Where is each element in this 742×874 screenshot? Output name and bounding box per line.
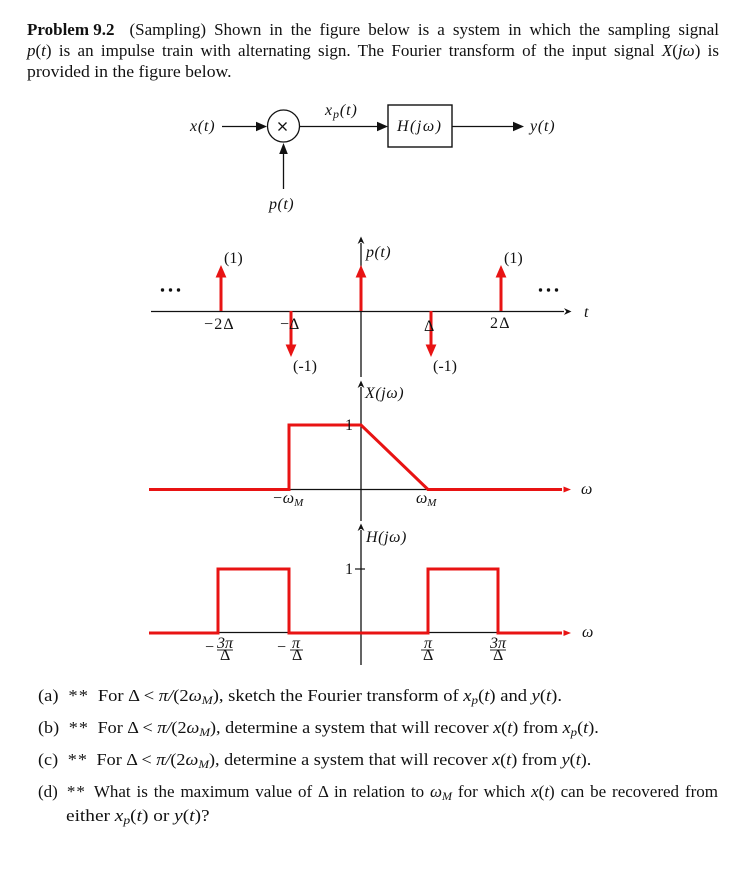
item (c)	[38, 749, 718, 770]
svg-text:−2Δ: −2Δ	[204, 316, 235, 333]
ellipsis right	[539, 288, 558, 291]
multiplier node	[268, 110, 300, 142]
svg-text:H(jω): H(jω)	[396, 118, 442, 135]
svg-text:1: 1	[345, 417, 353, 434]
svg-text:−: −	[277, 639, 286, 656]
svg-text:(-1): (-1)	[293, 358, 317, 375]
tick label -pi/D	[277, 635, 303, 664]
problem statement paragraph	[27, 19, 719, 82]
svg-text:(-1): (-1)	[433, 358, 457, 375]
svg-text:ωM: ωM	[416, 490, 437, 509]
svg-text:−ωM: −ωM	[272, 490, 304, 509]
svg-text:Δ: Δ	[220, 647, 230, 664]
impulse down at D	[426, 311, 437, 357]
svg-text:X(jω): X(jω)	[364, 385, 404, 402]
svg-text:Δ: Δ	[292, 647, 302, 664]
impulse up at 0	[356, 265, 367, 311]
svg-text:x(t): x(t)	[189, 118, 215, 135]
svg-text:−: −	[205, 639, 214, 656]
impulse up at 2D	[496, 265, 507, 311]
H(jw) filter curve	[149, 569, 562, 633]
tick label pi/D	[421, 635, 434, 664]
item (d) line 2	[66, 805, 742, 826]
impulse down at -D	[286, 311, 297, 357]
item (b)	[38, 717, 718, 738]
tick label -3pi/D	[205, 635, 234, 664]
X(jw) plot: frequency axis	[151, 489, 560, 491]
tick 1	[355, 568, 365, 570]
svg-text:1: 1	[345, 561, 353, 578]
p(t) plot: vertical axis	[358, 237, 365, 378]
svg-text:xp(t): xp(t)	[324, 102, 358, 121]
p(t) plot: time axis	[151, 308, 572, 315]
ellipsis left	[161, 288, 180, 291]
block H(jw)	[388, 105, 452, 147]
svg-text:Δ: Δ	[424, 318, 434, 335]
H curve arrowhead	[564, 630, 572, 636]
item (a)	[38, 685, 718, 706]
svg-text:(1): (1)	[224, 250, 243, 267]
item (d) line 1	[38, 781, 718, 802]
svg-text:t: t	[584, 304, 589, 321]
svg-text:(1): (1)	[504, 250, 523, 267]
X(jw) plot: vertical axis	[358, 381, 365, 522]
impulse up at -2D	[216, 265, 227, 311]
svg-text:H(jω): H(jω)	[365, 529, 407, 546]
svg-text:−Δ: −Δ	[280, 316, 299, 333]
wire multiplier to H block	[300, 122, 389, 132]
wire H block to output	[452, 122, 524, 132]
svg-text:Δ: Δ	[493, 647, 503, 664]
X curve arrowhead	[564, 487, 572, 493]
svg-text:p(t): p(t)	[268, 196, 294, 213]
X(jw) spectrum curve	[149, 425, 562, 490]
wire p(t) arrow into multiplier	[279, 143, 288, 189]
H(jw) plot: frequency axis	[151, 632, 560, 634]
svg-text:ω: ω	[581, 481, 592, 498]
svg-text:2Δ: 2Δ	[490, 315, 511, 332]
wire input arrow to multiplier	[222, 122, 267, 132]
svg-text:y(t): y(t)	[528, 118, 555, 135]
tick label 3pi/D	[489, 635, 507, 664]
svg-text:Δ: Δ	[423, 647, 433, 664]
svg-text:p(t): p(t)	[365, 244, 391, 261]
H(jw) plot: vertical axis	[358, 524, 365, 666]
svg-text:ω: ω	[582, 624, 593, 641]
